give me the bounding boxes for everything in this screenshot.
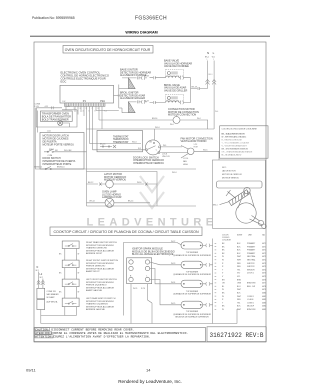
svg-text:LATCH MOTOR: LATCH MOTOR bbox=[222, 169, 236, 172]
connector on cooktop feed bbox=[37, 280, 40, 284]
caution box bbox=[34, 328, 206, 342]
svg-text:9: 9 bbox=[98, 108, 99, 110]
svg-text:INTERRUPTOR ENCENDIDO: INTERRUPTOR ENCENDIDO bbox=[86, 263, 114, 265]
svg-text:0677: 0677 bbox=[262, 283, 266, 285]
svg-text:Publication No: 5995599965: Publication No: 5995599965 bbox=[32, 16, 75, 20]
svg-text:ARRIERE DROIT: ARRIERE DROIT bbox=[86, 252, 103, 255]
broil valve solenoid bbox=[150, 94, 191, 104]
svg-text:8: 8 bbox=[95, 111, 96, 113]
svg-text:W-15: W-15 bbox=[203, 149, 207, 151]
svg-text:W: W bbox=[78, 292, 80, 294]
svg-text:PRIMARY: PRIMARY bbox=[247, 249, 256, 252]
wire valve junction to N bbox=[191, 78, 208, 103]
svg-text:OVEN CIRCUIT//CIRCUITO DE HORN: OVEN CIRCUIT//CIRCUITO DE HORNO//CIRCUIT… bbox=[65, 48, 151, 52]
svg-text:W: W bbox=[222, 256, 224, 258]
svg-text:5: 5 bbox=[86, 108, 87, 110]
svg-text:CONN 1: CONN 1 bbox=[247, 296, 254, 298]
svg-text:EOC: EOC bbox=[61, 80, 67, 84]
svg-text:MOTEUR PORTE VERROU: MOTEUR PORTE VERROU bbox=[43, 144, 75, 147]
switch SW-1 bbox=[44, 149, 87, 157]
svg-text:0671: 0671 bbox=[262, 243, 266, 245]
svg-text:A-W WH-8 A: A-W WH-8 A bbox=[47, 301, 58, 304]
svg-text:MOTEUR CONVECTION: MOTEUR CONVECTION bbox=[168, 114, 196, 117]
door switch bbox=[35, 166, 197, 174]
svg-text:FRENTE IZQUIERDO: FRENTE IZQUIERDO bbox=[86, 285, 107, 287]
svg-text:W-4: W-4 bbox=[197, 118, 200, 120]
svg-text:FGS366ECH: FGS366ECH bbox=[135, 16, 167, 22]
svg-text:YEL: YEL bbox=[237, 269, 240, 271]
main frame bbox=[34, 42, 266, 342]
wire sw2 bus bbox=[65, 268, 77, 280]
svg-text:V - VIOLET/VIOLETA/VIOLET: V - VIOLET/VIOLETA/VIOLET bbox=[222, 145, 248, 148]
svg-text:R - RED/ROJO/ROUGE: R - RED/ROJO/ROUGE bbox=[222, 140, 243, 142]
svg-text:W-76: W-76 bbox=[133, 288, 137, 290]
svg-text:0673: 0673 bbox=[262, 263, 266, 265]
svg-text:W-14: W-14 bbox=[155, 127, 159, 129]
svg-text:INTERRUPTEUR ALLUMEUR: INTERRUPTEUR ALLUMEUR bbox=[86, 249, 115, 252]
svg-text:Rendered by LeadVenture, Inc.: Rendered by LeadVenture, Inc. bbox=[118, 379, 182, 384]
svg-text:W-19: W-19 bbox=[145, 100, 149, 102]
transformer outer loop bbox=[36, 108, 77, 127]
svg-text:0671: 0671 bbox=[262, 253, 266, 255]
svg-text:3: 3 bbox=[80, 108, 81, 110]
svg-text:MOTOR DE CERROJO: MOTOR DE CERROJO bbox=[222, 174, 242, 176]
svg-text:TERMOSTATO: TERMOSTATO bbox=[113, 138, 129, 141]
svg-text:MD-SUP: MD-SUP bbox=[247, 306, 255, 308]
svg-text:W-4: W-4 bbox=[215, 111, 218, 113]
svg-text:BK - BLACK/NEGRO/NOIR: BK - BLACK/NEGRO/NOIR bbox=[222, 133, 246, 136]
fan motor bbox=[181, 144, 219, 166]
ignitor switch 4 label bbox=[86, 297, 116, 311]
spark module box bbox=[127, 258, 152, 284]
svg-text:HIGH: HIGH bbox=[183, 164, 188, 166]
oven circuit title box bbox=[63, 46, 153, 54]
svg-text:BK/W-11: BK/W-11 bbox=[35, 167, 42, 169]
svg-text:09/11: 09/11 bbox=[26, 368, 36, 373]
svg-text:W: W bbox=[78, 273, 80, 275]
svg-text:INTERRUPTOR ENCENDIDO: INTERRUPTOR ENCENDIDO bbox=[86, 282, 114, 284]
svg-text:W: W bbox=[222, 296, 224, 298]
top burner 1 bbox=[171, 241, 213, 249]
svg-text:QUEMADOR DE SUPERFICIE SUPERIE: QUEMADOR DE SUPERFICIE SUPERIEUR bbox=[173, 313, 211, 316]
svg-text:BELL 1-W: BELL 1-W bbox=[247, 286, 255, 288]
svg-text:W-1: W-1 bbox=[212, 57, 215, 59]
latch mechanism drawing bbox=[217, 181, 267, 229]
wires from P1 pins bbox=[66, 106, 157, 206]
door lock switch rotary bbox=[93, 129, 188, 155]
wire broil ignitor bbox=[128, 100, 147, 103]
svg-text:CONN 120: CONN 120 bbox=[47, 291, 56, 293]
svg-text:7: 7 bbox=[92, 108, 93, 110]
wire left verticals bbox=[34, 108, 36, 169]
svg-text:ALLUMEUR FOURNEE: ALLUMEUR FOURNEE bbox=[120, 74, 147, 77]
table row ticks bbox=[215, 243, 217, 309]
svg-text:4: 4 bbox=[83, 111, 84, 113]
convection motor bbox=[87, 116, 215, 130]
svg-text:QUEMADOR DE SUPERFICIE SUPERIE: QUEMADOR DE SUPERFICIE SUPERIEUR bbox=[173, 273, 211, 276]
svg-text:SW-1: SW-1 bbox=[213, 205, 218, 207]
conn block 1 bbox=[37, 288, 45, 299]
svg-text:W-4: W-4 bbox=[170, 124, 173, 126]
svg-text:0674: 0674 bbox=[262, 269, 266, 271]
svg-text:BOLD TRANSFORMER: BOLD TRANSFORMER bbox=[42, 118, 69, 121]
wire from conn to bus bbox=[40, 310, 42, 324]
svg-text:W: W bbox=[222, 260, 224, 262]
svg-text:W-24: W-24 bbox=[171, 282, 175, 284]
ignitor switch 1 bbox=[62, 241, 79, 249]
svg-text:R-76: R-76 bbox=[141, 288, 145, 290]
svg-text:INTERRUPTEUR ALLUMEUR: INTERRUPTEUR ALLUMEUR bbox=[86, 305, 115, 308]
svg-text:W-25: W-25 bbox=[171, 303, 175, 305]
wire from P1 to left bbox=[36, 106, 62, 109]
svg-text:W-18: W-18 bbox=[145, 76, 149, 78]
svg-text:DOOR 1: DOOR 1 bbox=[247, 273, 254, 275]
svg-text:IGNITOR: IGNITOR bbox=[247, 263, 255, 265]
svg-text:W-16: W-16 bbox=[137, 182, 141, 184]
connector on N line bbox=[206, 80, 210, 85]
svg-text:LO-ELE: LO-ELE bbox=[247, 299, 254, 301]
svg-text:R-1: R-1 bbox=[138, 148, 141, 150]
svg-text:0672: 0672 bbox=[262, 256, 266, 258]
svg-text:W-1: W-1 bbox=[163, 145, 166, 147]
svg-text:0672: 0672 bbox=[262, 260, 266, 262]
svg-text:BR-16: BR-16 bbox=[152, 118, 157, 120]
svg-text:ATENCION:CORTAR EL CORRIENTE A: ATENCION:CORTAR EL CORRIENTE ANTES DE RE… bbox=[35, 332, 188, 335]
svg-text:FRENTE DERECHO: FRENTE DERECHO bbox=[86, 266, 106, 268]
wire bottom bus bbox=[41, 309, 237, 324]
svg-text:0673: 0673 bbox=[262, 266, 266, 268]
svg-text:LEFT REAR IGNITOR SWITCH: LEFT REAR IGNITOR SWITCH bbox=[86, 297, 116, 300]
note block bbox=[222, 167, 242, 180]
svg-text:MOTEUR VERROU: MOTEUR VERROU bbox=[222, 178, 239, 180]
wire module down bbox=[131, 284, 152, 324]
svg-text:VALVE DE GRILLER: VALVE DE GRILLER bbox=[164, 89, 187, 92]
svg-text:IDENT: IDENT bbox=[237, 235, 243, 237]
ignitor switch 2 bbox=[62, 260, 79, 268]
svg-text:N: N bbox=[37, 266, 39, 269]
svg-text:BK-14: BK-14 bbox=[128, 201, 133, 203]
ignitor switch 1 label bbox=[86, 241, 117, 255]
svg-text:VENTILADOR HORNO: VENTILADOR HORNO bbox=[181, 140, 207, 143]
lamp bbox=[87, 198, 197, 207]
svg-text:BRULEUR DE SURFACE SUPERIEUR: BRULEUR DE SURFACE SUPERIEUR bbox=[175, 316, 209, 319]
wire sw4 bus bbox=[65, 307, 77, 316]
svg-text:4-W: 4-W bbox=[45, 106, 49, 108]
svg-text:OR - ORANGE/NARANJA/ORANGE: OR - ORANGE/NARANJA/ORANGE bbox=[222, 151, 254, 154]
svg-text:0675: 0675 bbox=[262, 276, 266, 278]
svg-text:VALVE DE FOURNEE: VALVE DE FOURNEE bbox=[164, 65, 189, 68]
svg-text:0681: 0681 bbox=[262, 296, 266, 298]
transformer label box bbox=[41, 111, 73, 121]
svg-text:NO 1: NO 1 bbox=[222, 167, 226, 169]
broil ignitor HSI element bbox=[128, 102, 135, 113]
svg-text:NEUTRAL: NEUTRAL bbox=[247, 255, 255, 258]
svg-text:COOL: COOL bbox=[183, 158, 188, 160]
svg-text:COOKTOP CIRCUIT / CIRCUITO DE: COOKTOP CIRCUIT / CIRCUITO DE PLANCHA DE… bbox=[53, 230, 199, 234]
svg-text:YEL: YEL bbox=[237, 302, 240, 304]
svg-text:INTERRUPTOR ENCENDIDO: INTERRUPTOR ENCENDIDO bbox=[86, 245, 114, 247]
svg-text:IGNITOR: IGNITOR bbox=[247, 266, 255, 268]
svg-text:BL: BL bbox=[222, 286, 224, 288]
svg-text:PRIMARY: PRIMARY bbox=[247, 242, 256, 245]
cooktop circuit title box bbox=[50, 227, 202, 236]
svg-text:CONTROLE ELECTRONIQUE FOUR: CONTROLE ELECTRONIQUE FOUR bbox=[61, 77, 106, 81]
wire cooktop supply bbox=[39, 272, 43, 289]
svg-text:NEUTRAL: NEUTRAL bbox=[247, 259, 255, 262]
svg-text:L1-N: L1-N bbox=[35, 106, 40, 108]
svg-text:WIRING DIAGRAM: WIRING DIAGRAM bbox=[125, 30, 157, 34]
svg-text:W-23: W-23 bbox=[171, 263, 175, 265]
bake valve solenoid bbox=[150, 69, 191, 79]
svg-text:0678: 0678 bbox=[262, 286, 266, 288]
svg-text:0682: 0682 bbox=[262, 299, 266, 301]
svg-text:W: W bbox=[222, 289, 224, 291]
svg-text:W-1: W-1 bbox=[36, 270, 39, 272]
svg-text:BK-12: BK-12 bbox=[88, 182, 93, 184]
svg-text:316271922 REV:B: 316271922 REV:B bbox=[209, 332, 263, 339]
svg-text:W - WHITE/BLANCO/BLANC: W - WHITE/BLANCO/BLANC bbox=[222, 136, 247, 139]
svg-text:INTERRUPTEUR ALLUMEUR: INTERRUPTEUR ALLUMEUR bbox=[86, 267, 115, 270]
svg-text:1-W: 1-W bbox=[67, 106, 71, 108]
svg-text:ARRIERE GAUCHE: ARRIERE GAUCHE bbox=[86, 308, 105, 311]
svg-text:RIGHT FRONT IGNITOR SWITCH: RIGHT FRONT IGNITOR SWITCH bbox=[86, 260, 119, 262]
svg-text:BK-1: BK-1 bbox=[209, 74, 213, 76]
svg-text:PRIMARY: PRIMARY bbox=[247, 252, 256, 255]
svg-text:ALLUMEUR GRILLER: ALLUMEUR GRILLER bbox=[120, 97, 145, 100]
svg-text:P2A: P2A bbox=[100, 100, 105, 103]
wire sw3 bus bbox=[65, 287, 77, 299]
svg-text:PRIMARY: PRIMARY bbox=[247, 245, 256, 248]
bake ignitor HSI element bbox=[128, 78, 135, 89]
connector on L line bbox=[212, 80, 216, 85]
pin labels under P1 bbox=[74, 108, 99, 113]
svg-text:THERMOSTAT: THERMOSTAT bbox=[113, 135, 129, 138]
top burner 3 bbox=[171, 280, 213, 287]
svg-text:INTERRUPTOR ENCENDIDO: INTERRUPTOR ENCENDIDO bbox=[86, 301, 114, 303]
wire sw1 bus bbox=[65, 249, 77, 261]
svg-text:0680: 0680 bbox=[262, 293, 266, 295]
svg-text:OR-14: OR-14 bbox=[89, 201, 95, 203]
ignitor switch 2 label bbox=[86, 260, 119, 273]
legend box color codes bbox=[220, 126, 268, 158]
svg-text:RIGHT REAR IGNITOR SWITCH: RIGHT REAR IGNITOR SWITCH bbox=[86, 241, 117, 244]
transformer symbol bbox=[58, 121, 63, 126]
svg-text:L: L bbox=[147, 276, 148, 278]
svg-text:TRASERO DERECHO: TRASERO DERECHO bbox=[86, 247, 107, 250]
svg-text:BRN/ORN: BRN/ORN bbox=[247, 283, 256, 285]
svg-text:W-14 BK: W-14 BK bbox=[64, 150, 72, 152]
wire module to burners bbox=[124, 243, 182, 316]
wire bake ignitor bbox=[122, 76, 147, 79]
svg-text:Y - YELLOW/AMARILLO/JAUNE: Y - YELLOW/AMARILLO/JAUNE bbox=[222, 142, 250, 145]
svg-text:AVANT DROIT: AVANT DROIT bbox=[86, 270, 100, 273]
svg-text:0683: 0683 bbox=[262, 302, 266, 304]
part number box bbox=[207, 327, 266, 342]
svg-text:QUEMADOR DE SUPERFICIE SUPERIE: QUEMADOR DE SUPERFICIE SUPERIEUR bbox=[173, 293, 211, 296]
svg-text:T-1: T-1 bbox=[104, 111, 107, 113]
svg-text:BL - BLUE/AZUL/BLEU: BL - BLUE/AZUL/BLEU bbox=[222, 154, 242, 157]
svg-text:TRASERO IZQUIERDO: TRASERO IZQUIERDO bbox=[86, 303, 109, 306]
svg-text:BRN/ORN: BRN/ORN bbox=[247, 309, 256, 311]
svg-text:0676: 0676 bbox=[262, 279, 266, 281]
svg-text:W: W bbox=[222, 309, 224, 311]
svg-text:TOP BURNER: TOP BURNER bbox=[186, 311, 199, 313]
EOC control board box bbox=[60, 85, 114, 103]
svg-text:ORN: ORN bbox=[237, 283, 242, 285]
svg-text:LEFT FRONT IGNITOR SWITCH: LEFT FRONT IGNITOR SWITCH bbox=[86, 279, 117, 281]
svg-text:INTERRUPTEUR VERROU: INTERRUPTEUR VERROU bbox=[133, 162, 164, 165]
svg-text:W-22: W-22 bbox=[171, 241, 175, 243]
top burner 2 bbox=[171, 261, 213, 268]
connector comb P1 bbox=[65, 103, 106, 106]
svg-text:INTERRUPTEUR ALLUMEUR: INTERRUPTEUR ALLUMEUR bbox=[86, 286, 115, 289]
svg-text:1-W: 1-W bbox=[62, 101, 66, 103]
svg-text:AVANT GAUCHE: AVANT GAUCHE bbox=[86, 289, 103, 292]
svg-text:LEADVENTURE: LEADVENTURE bbox=[87, 217, 218, 229]
wire transformer bbox=[63, 123, 70, 127]
svg-text:TOP BURNER: TOP BURNER bbox=[186, 291, 199, 293]
svg-text:0671: 0671 bbox=[262, 250, 266, 252]
svg-text:0685: 0685 bbox=[262, 309, 266, 311]
svg-text:0675: 0675 bbox=[262, 273, 266, 275]
svg-text:COLOR/COLOR/COULEUR CODE-WIRE: COLOR/COLOR/COULEUR CODE-WIRE bbox=[222, 129, 258, 131]
svg-text:CONN 1: CONN 1 bbox=[247, 302, 254, 304]
svg-text:FAN: FAN bbox=[183, 160, 187, 163]
motor latch M1 bbox=[87, 179, 158, 189]
svg-text:TOP BURNER: TOP BURNER bbox=[186, 271, 199, 273]
svg-text:BR - BROWN/MARRON/BRUN: BR - BROWN/MARRON/BRUN bbox=[222, 148, 249, 151]
svg-text:COULEUR: COULEUR bbox=[222, 240, 231, 242]
wire table bbox=[222, 234, 265, 242]
svg-text:QUEMADOR DE SUPERFICIE SUPERIE: QUEMADOR DE SUPERFICIE SUPERIEUR bbox=[173, 254, 211, 257]
latch info box bbox=[212, 160, 265, 228]
ignitor switch 3 label bbox=[86, 279, 117, 292]
svg-text:BLOC ALLUMAGE ELECTRONIQUE: BLOC ALLUMAGE ELECTRONIQUE bbox=[132, 253, 174, 256]
wire burner return bus bbox=[212, 239, 214, 324]
conn block 2 bbox=[37, 300, 45, 310]
svg-text:0684: 0684 bbox=[262, 306, 266, 308]
svg-text:BK-16: BK-16 bbox=[100, 144, 105, 146]
svg-text:W: W bbox=[78, 254, 80, 256]
svg-text:N: N bbox=[207, 51, 209, 55]
svg-text:W-14: W-14 bbox=[132, 142, 136, 144]
wire EOC right vertical to ignitors bbox=[114, 85, 129, 113]
svg-text:UNLOCK: UNLOCK bbox=[162, 156, 171, 158]
header rule bbox=[30, 35, 270, 37]
ignitor switch 3 bbox=[62, 279, 79, 287]
oven sensor box bbox=[97, 131, 143, 152]
svg-text:TOP BURNER: TOP BURNER bbox=[186, 252, 199, 254]
svg-text:14: 14 bbox=[146, 368, 151, 373]
svg-text:6: 6 bbox=[89, 111, 90, 113]
svg-text:VAC BRAKER: VAC BRAKER bbox=[47, 293, 60, 296]
svg-text:BK/W-10: BK/W-10 bbox=[57, 167, 65, 169]
svg-text:SENSOR: SENSOR bbox=[247, 269, 255, 271]
watermark logo bbox=[140, 176, 164, 208]
top burner 4 bbox=[171, 301, 213, 308]
ignitor switch 4 bbox=[62, 298, 79, 307]
svg-text:W-2: W-2 bbox=[40, 277, 43, 279]
svg-text:BK-18: BK-18 bbox=[192, 87, 197, 89]
svg-text:0679: 0679 bbox=[262, 289, 266, 291]
svg-text:0671: 0671 bbox=[262, 246, 266, 248]
svg-text:BK-1: BK-1 bbox=[205, 57, 209, 59]
svg-text:W-14: W-14 bbox=[172, 172, 176, 174]
svg-text:W-1 AMP: W-1 AMP bbox=[47, 296, 56, 299]
